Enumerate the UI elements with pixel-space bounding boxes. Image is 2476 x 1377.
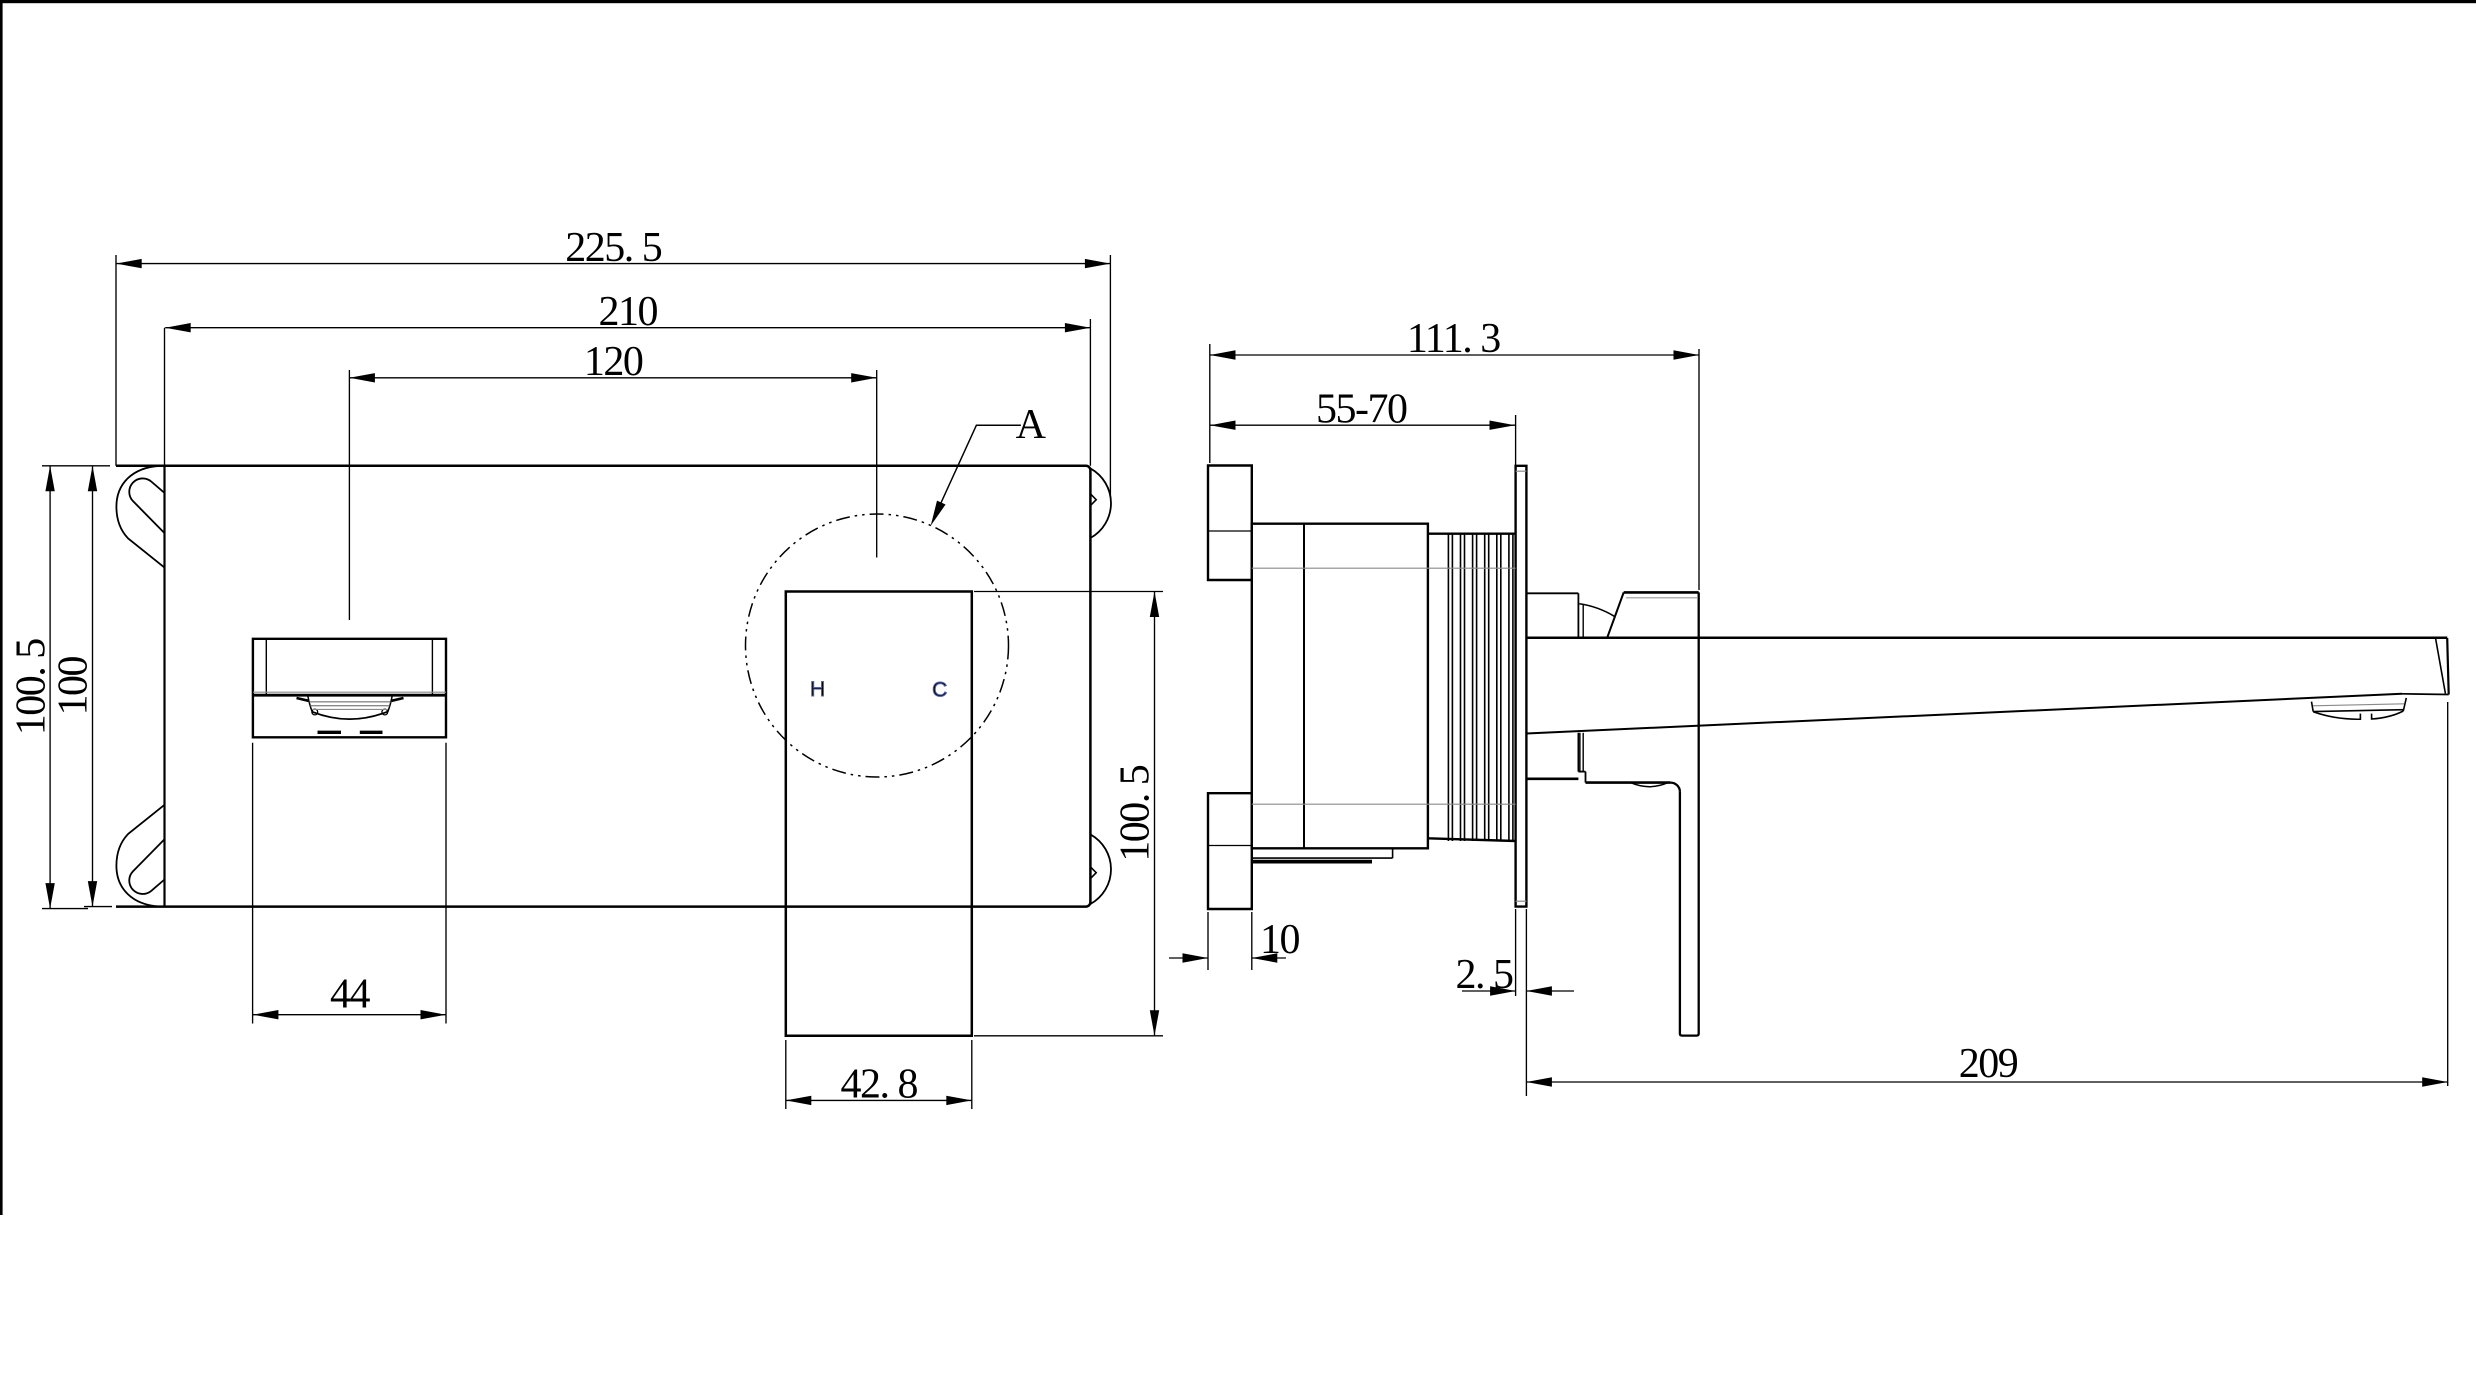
svg-text:225. 5: 225. 5 <box>565 225 662 271</box>
svg-text:100. 5: 100. 5 <box>8 639 54 736</box>
svg-text:120: 120 <box>584 339 643 385</box>
svg-text:10: 10 <box>1260 917 1300 963</box>
svg-text:210: 210 <box>599 289 658 335</box>
svg-text:42. 8: 42. 8 <box>841 1061 918 1107</box>
svg-text:111. 3: 111. 3 <box>1407 316 1500 362</box>
svg-text:55-70: 55-70 <box>1316 386 1407 432</box>
svg-text:C: C <box>932 678 947 701</box>
svg-text:100: 100 <box>51 656 97 715</box>
svg-text:H: H <box>810 678 825 701</box>
svg-text:100. 5: 100. 5 <box>1113 765 1159 862</box>
svg-text:2. 5: 2. 5 <box>1456 952 1514 998</box>
svg-text:209: 209 <box>1959 1041 2018 1087</box>
svg-text:A: A <box>1016 402 1047 448</box>
svg-text:44: 44 <box>330 972 371 1018</box>
